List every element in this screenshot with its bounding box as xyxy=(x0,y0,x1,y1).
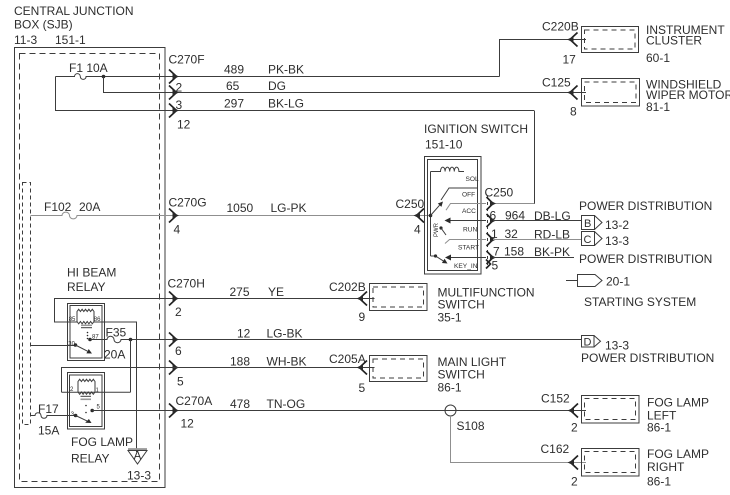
svg-text:17: 17 xyxy=(563,53,577,67)
svg-text:C250: C250 xyxy=(396,197,425,211)
fog lamp left box xyxy=(582,396,640,424)
wire 158 BK-PK xyxy=(493,257,574,259)
connector C270H pin 5 chevron xyxy=(169,361,177,375)
wire C270H-2 275 YE to relay pin 85 xyxy=(55,299,375,323)
svg-text:SWITCH: SWITCH xyxy=(438,298,485,312)
connector C250 ACC pin chevron xyxy=(487,197,494,210)
fog lamp relay core bars xyxy=(81,395,92,397)
svg-text:35-1: 35-1 xyxy=(438,311,462,325)
wire relay pin 30 feed xyxy=(31,345,76,347)
central junction box SJB label xyxy=(14,4,134,47)
svg-text:2: 2 xyxy=(571,475,578,489)
svg-text:POWER DISTRIBUTION: POWER DISTRIBUTION xyxy=(579,252,712,266)
multifunction switch box xyxy=(370,284,428,311)
svg-text:3: 3 xyxy=(176,98,183,112)
svg-text:13-3: 13-3 xyxy=(127,469,151,483)
svg-text:C152: C152 xyxy=(541,392,570,406)
svg-text:7: 7 xyxy=(493,245,500,259)
node F35 output junction xyxy=(129,338,133,342)
svg-text:81-1: 81-1 xyxy=(646,100,670,114)
node relay pin 87 xyxy=(88,338,92,342)
svg-text:4: 4 xyxy=(414,223,421,237)
svg-text:FOG LAMP: FOG LAMP xyxy=(647,447,709,461)
svg-text:C: C xyxy=(584,234,592,246)
splice S108 xyxy=(445,405,456,416)
svg-text:PK-BK: PK-BK xyxy=(268,63,304,77)
flag B 13-2 xyxy=(582,216,595,230)
flag D 13-3 xyxy=(582,336,595,348)
svg-text:YE: YE xyxy=(268,285,284,299)
svg-text:12: 12 xyxy=(181,417,195,431)
connector C250 right dashed line xyxy=(487,196,489,266)
connector C270H pin 2 chevron xyxy=(169,292,177,306)
node fog relay pin 5 xyxy=(90,409,94,413)
svg-text:C270F: C270F xyxy=(169,53,205,67)
windshield wiper motor box xyxy=(582,79,640,107)
svg-text:BK-LG: BK-LG xyxy=(268,97,304,111)
fog lamp relay coil xyxy=(78,379,95,394)
svg-text:F102: F102 xyxy=(44,200,72,214)
svg-text:POWER DISTRIBUTION: POWER DISTRIBUTION xyxy=(579,199,712,213)
svg-text:151-10: 151-10 xyxy=(425,138,463,152)
fog lamp relay linkage dots xyxy=(85,405,87,407)
svg-text:5: 5 xyxy=(492,259,499,273)
svg-text:2: 2 xyxy=(175,305,182,319)
main light switch box xyxy=(370,356,428,382)
wire 65 DG row xyxy=(104,92,587,94)
svg-text:C162: C162 xyxy=(541,442,570,456)
svg-text:151-1: 151-1 xyxy=(55,33,86,47)
svg-text:86-1: 86-1 xyxy=(647,421,671,435)
svg-text:BK-PK: BK-PK xyxy=(534,245,570,259)
wire F1 fused feed (row to C270F-2) xyxy=(56,74,500,80)
ignition switch common bus xyxy=(430,172,432,257)
instrument cluster box xyxy=(582,27,639,53)
svg-text:LG-PK: LG-PK xyxy=(271,201,307,215)
svg-text:8: 8 xyxy=(570,105,577,119)
wire F35 drop to fog relay pin 1 xyxy=(130,340,132,393)
svg-text:A: A xyxy=(134,451,142,463)
SJB internal bus strip (dashed) xyxy=(23,183,31,425)
svg-text:C220B: C220B xyxy=(542,20,579,34)
connector C220B chevron xyxy=(570,33,578,47)
svg-text:1: 1 xyxy=(491,227,498,241)
svg-text:SOL: SOL xyxy=(466,176,480,183)
svg-text:B: B xyxy=(584,218,591,230)
svg-text:DB-LG: DB-LG xyxy=(534,209,571,223)
contact ACC xyxy=(446,204,486,211)
wire 188 WH-BK row xyxy=(62,368,375,393)
wire 478 TN-OG row xyxy=(92,410,586,412)
wire 297 BK-LG row xyxy=(56,110,535,112)
svg-text:WH-BK: WH-BK xyxy=(267,355,307,369)
svg-text:478: 478 xyxy=(230,397,250,411)
wire 964 DB-LG xyxy=(493,220,581,222)
svg-text:BOX (SJB): BOX (SJB) xyxy=(14,18,73,32)
svg-text:5: 5 xyxy=(177,375,184,389)
connector C250 pin 5 chevron xyxy=(486,260,491,269)
fog lamp right box xyxy=(582,449,640,477)
svg-text:275: 275 xyxy=(230,285,250,299)
ignition switch box xyxy=(425,157,482,275)
svg-text:20-1: 20-1 xyxy=(606,275,630,289)
wire fog relay coil pins 2-1 line xyxy=(62,391,131,393)
svg-text:1050: 1050 xyxy=(227,201,254,215)
wire relay pin 86 to ground drop xyxy=(94,322,137,452)
connector C205A pin 5 chevron xyxy=(360,361,368,375)
ground triangle A 13-3 xyxy=(128,448,147,450)
ignition auxiliary arm xyxy=(439,226,442,229)
connector C250 pin 7 chevron xyxy=(487,251,494,264)
wire 489 PK-BK riser to C220B xyxy=(500,40,587,77)
connector C270G pin 4 chevron xyxy=(169,209,177,223)
ignition switch wiper arm xyxy=(431,205,440,215)
connector C250 pin 1 chevron xyxy=(487,233,494,246)
svg-text:188: 188 xyxy=(230,355,250,369)
connector C270F pin 3 chevron xyxy=(169,104,177,118)
hi beam relay linkage dots xyxy=(87,332,89,334)
svg-text:6: 6 xyxy=(175,344,182,358)
svg-text:RELAY: RELAY xyxy=(71,452,109,466)
node ignition common xyxy=(429,214,433,218)
ignition key-in arm xyxy=(431,256,444,261)
svg-text:12: 12 xyxy=(177,118,191,132)
svg-text:13-3: 13-3 xyxy=(605,234,629,248)
wire relay pin 87 through fuse F35 xyxy=(90,336,582,342)
svg-text:FOG LAMP: FOG LAMP xyxy=(647,396,709,410)
svg-text:20A: 20A xyxy=(104,348,125,362)
node F1 output junction xyxy=(102,75,106,79)
connector C162 pin 2 chevron xyxy=(571,456,579,470)
svg-text:IGNITION SWITCH: IGNITION SWITCH xyxy=(424,122,528,136)
svg-text:65: 65 xyxy=(226,79,240,93)
hi beam relay box xyxy=(68,304,105,361)
svg-text:RIGHT: RIGHT xyxy=(647,460,685,474)
svg-text:START: START xyxy=(458,245,479,252)
svg-text:489: 489 xyxy=(224,63,244,77)
connector C250 pin 4 chevron xyxy=(417,209,425,223)
wire F102 1050 LG-PK row xyxy=(31,212,431,219)
fog lamp relay box xyxy=(68,373,105,430)
svg-text:F35: F35 xyxy=(106,326,127,340)
connector C270A pin 12 chevron xyxy=(169,404,177,418)
svg-text:158: 158 xyxy=(504,245,524,259)
svg-text:2: 2 xyxy=(176,81,183,95)
svg-text:86-1: 86-1 xyxy=(647,475,671,489)
connector C250 pin 6 chevron xyxy=(487,214,494,227)
hi beam relay coil xyxy=(77,309,94,324)
svg-text:9: 9 xyxy=(359,310,366,324)
svg-text:4: 4 xyxy=(174,223,181,237)
svg-text:F1 10A: F1 10A xyxy=(69,61,108,75)
svg-text:POWER DISTRIBUTION: POWER DISTRIBUTION xyxy=(581,351,714,365)
svg-text:SWITCH: SWITCH xyxy=(438,368,485,382)
svg-text:32: 32 xyxy=(505,227,519,241)
contact RUN xyxy=(446,220,487,222)
svg-text:HI BEAM: HI BEAM xyxy=(67,266,116,280)
starting system flag 20-1 xyxy=(566,280,578,282)
connector C152 pin 2 chevron xyxy=(571,404,579,418)
central junction box SJB inner dashed outline xyxy=(20,54,160,482)
svg-text:PWR: PWR xyxy=(434,222,440,237)
svg-text:86-1: 86-1 xyxy=(438,381,462,395)
svg-text:15A: 15A xyxy=(38,424,59,438)
node relay pin 30 xyxy=(74,343,78,347)
svg-text:CLUSTER: CLUSTER xyxy=(646,34,702,48)
svg-text:C125: C125 xyxy=(542,76,571,90)
svg-text:LG-BK: LG-BK xyxy=(267,327,303,341)
connector C270H pin 6 chevron xyxy=(169,333,177,347)
svg-text:13-2: 13-2 xyxy=(605,218,629,232)
svg-text:5: 5 xyxy=(359,381,366,395)
hi beam relay core bars xyxy=(81,324,92,326)
svg-text:TN-OG: TN-OG xyxy=(267,397,306,411)
svg-text:C270H: C270H xyxy=(168,277,205,291)
svg-text:C202B: C202B xyxy=(329,280,366,294)
connector C270F pin (row1) chevron xyxy=(169,70,177,84)
contact OFF xyxy=(441,188,477,200)
svg-text:C270G: C270G xyxy=(169,196,207,210)
svg-text:OFF: OFF xyxy=(462,192,475,199)
svg-text:STARTING SYSTEM: STARTING SYSTEM xyxy=(584,295,696,309)
svg-text:S108: S108 xyxy=(457,419,485,433)
wire branch down to pin 3 row xyxy=(103,77,105,94)
svg-text:FOG LAMP: FOG LAMP xyxy=(71,435,133,449)
node fog relay pin 3 xyxy=(74,414,78,418)
svg-text:2: 2 xyxy=(571,421,578,435)
wire F17 feed to fog relay pin 3 xyxy=(31,413,76,419)
svg-text:RD-LB: RD-LB xyxy=(534,228,570,242)
ignition switch solenoid coil xyxy=(431,167,465,171)
svg-text:11-3: 11-3 xyxy=(14,33,37,47)
svg-text:297: 297 xyxy=(224,97,244,111)
svg-text:C250: C250 xyxy=(485,186,514,200)
wire S108 branch to fog lamp right xyxy=(451,416,587,463)
central junction box SJB outline xyxy=(15,48,166,488)
svg-text:C270A: C270A xyxy=(176,394,213,408)
hi beam relay arm xyxy=(75,345,87,351)
svg-text:964: 964 xyxy=(505,209,525,223)
svg-text:DG: DG xyxy=(268,79,286,93)
contact START xyxy=(445,240,486,244)
svg-text:D: D xyxy=(584,337,592,349)
contact KEY_IN xyxy=(446,257,486,259)
fog lamp relay arm xyxy=(76,416,87,421)
wire 297 BK-LG vertical drop to ignition ACC xyxy=(534,111,536,205)
svg-text:RUN: RUN xyxy=(463,227,478,234)
svg-text:RELAY: RELAY xyxy=(67,280,105,294)
connector C202B pin 9 chevron xyxy=(360,292,368,306)
wire branch down to pin 12 row xyxy=(55,77,57,112)
wire 32 RD-LB xyxy=(493,239,581,241)
svg-text:KEY_IN: KEY_IN xyxy=(454,263,478,270)
svg-text:C205A: C205A xyxy=(329,352,366,366)
svg-text:CENTRAL JUNCTION: CENTRAL JUNCTION xyxy=(14,4,134,18)
connector C270F pin 2 chevron xyxy=(169,86,177,100)
connector C125 chevron xyxy=(570,86,578,100)
flag C 13-3 xyxy=(582,232,595,246)
svg-text:60-1: 60-1 xyxy=(646,51,670,65)
svg-text:ACC: ACC xyxy=(462,208,476,215)
svg-text:20A: 20A xyxy=(79,200,100,214)
svg-text:12: 12 xyxy=(237,327,251,341)
